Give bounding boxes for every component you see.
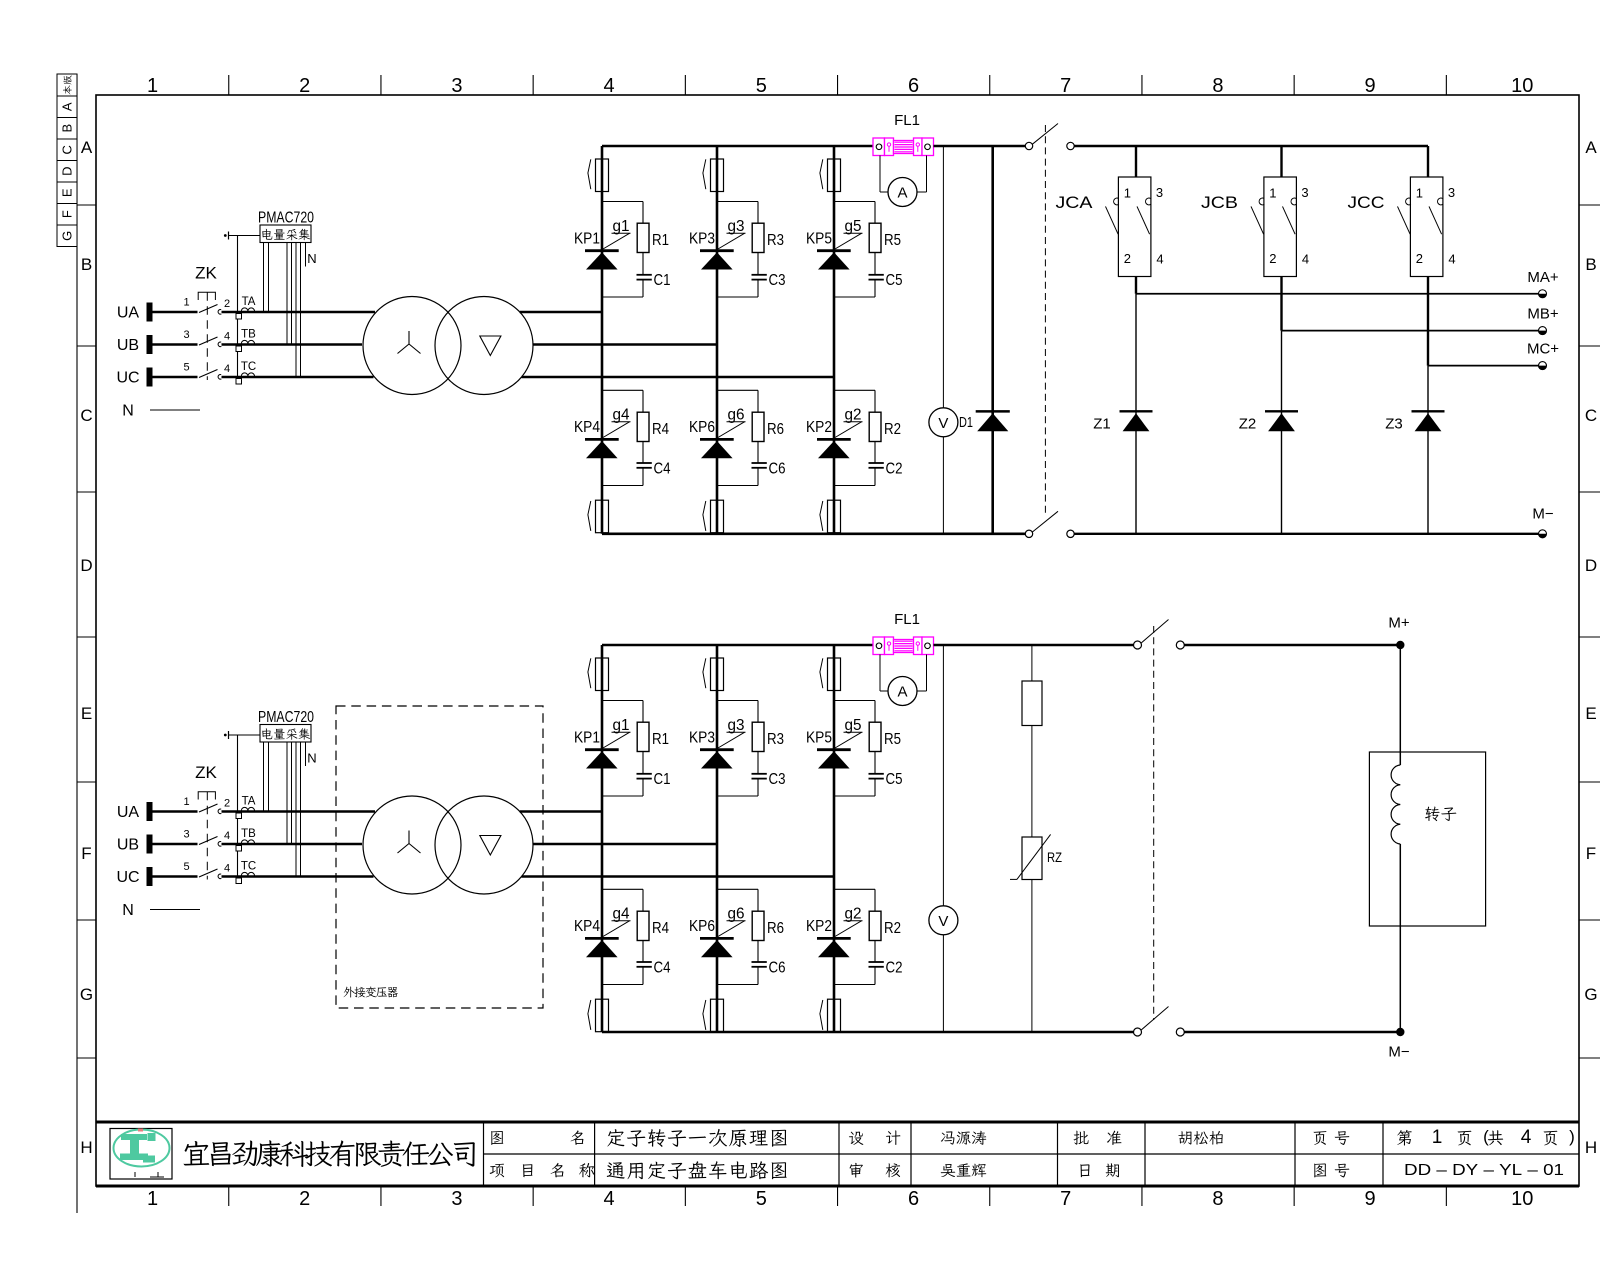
bridge top bus stator bbox=[602, 145, 873, 148]
svg-text:C4: C4 bbox=[654, 960, 671, 977]
ZK contact blade phase UC rotor bbox=[199, 869, 218, 877]
svg-text:R6: R6 bbox=[767, 421, 784, 438]
svg-text:R3: R3 bbox=[767, 232, 784, 249]
svg-text:E: E bbox=[1585, 704, 1596, 723]
svg-text:1: 1 bbox=[1416, 186, 1423, 201]
svg-text:5: 5 bbox=[183, 362, 189, 374]
svg-text:g4: g4 bbox=[613, 906, 630, 923]
voltmeter V top circuit bbox=[929, 408, 958, 437]
designer name 冯源涛 bbox=[941, 1131, 955, 1144]
svg-text:5: 5 bbox=[756, 1188, 767, 1210]
svg-text:9: 9 bbox=[1365, 75, 1376, 97]
negative bus M- run bbox=[1074, 533, 1542, 535]
disconnect switch on M+ bus bbox=[1134, 641, 1142, 649]
logo base ticks bbox=[135, 1172, 164, 1177]
svg-text:M−: M− bbox=[1388, 1044, 1409, 1061]
fuse top leg1 rotor bbox=[588, 658, 591, 688]
svg-text:4: 4 bbox=[224, 363, 230, 375]
ZK linkage dashed line rotor bbox=[206, 792, 208, 880]
svg-text:4: 4 bbox=[1302, 252, 1309, 267]
left outer trim line bbox=[76, 74, 78, 1213]
fuse shunt FL1 body rotor bbox=[873, 637, 885, 655]
svg-text:1: 1 bbox=[1269, 186, 1276, 201]
svg-text:C: C bbox=[59, 145, 74, 154]
title block outline bbox=[96, 1121, 1579, 1124]
svg-text:N: N bbox=[307, 251, 316, 266]
bridge leg 1 stator bbox=[601, 146, 604, 534]
wire UB to switch ZK stator bbox=[153, 343, 198, 346]
fuse bottom leg1 stator bbox=[588, 501, 591, 531]
svg-text:C4: C4 bbox=[654, 461, 671, 478]
ZK linkage dashed line stator bbox=[206, 292, 208, 380]
svg-text:UA: UA bbox=[117, 305, 140, 322]
svg-text:RZ: RZ bbox=[1047, 849, 1062, 865]
checker name 吴重辉 bbox=[941, 1164, 956, 1177]
svg-text:DD – DY – YL – 01: DD – DY – YL – 01 bbox=[1404, 1162, 1564, 1179]
svg-text:A: A bbox=[59, 102, 74, 111]
svg-text:KP1: KP1 bbox=[574, 231, 600, 248]
svg-text:F: F bbox=[1586, 844, 1596, 863]
thyristor KP4 with snubber R4,C4 stator bbox=[602, 389, 643, 391]
bridge bottom bus stator bbox=[602, 532, 1025, 535]
rotor feed wire bbox=[1399, 645, 1401, 765]
svg-text:g6: g6 bbox=[728, 906, 745, 923]
svg-text:PMAC720: PMAC720 bbox=[258, 210, 314, 227]
fuse top leg3 rotor bbox=[820, 658, 823, 688]
svg-text:KP3: KP3 bbox=[689, 730, 715, 747]
svg-text:C3: C3 bbox=[769, 771, 786, 788]
bridge bottom bus rotor bbox=[602, 1031, 1134, 1034]
fuse bottom leg1 rotor bbox=[588, 1000, 591, 1030]
svg-text:UC: UC bbox=[116, 869, 139, 886]
svg-text:B: B bbox=[81, 255, 92, 274]
svg-text:KP2: KP2 bbox=[806, 419, 832, 436]
svg-text:V: V bbox=[938, 913, 948, 930]
wire UB to switch ZK rotor bbox=[153, 843, 198, 846]
transformer output wires rotor bbox=[520, 810, 602, 813]
svg-text:3: 3 bbox=[451, 1188, 462, 1210]
svg-text:A: A bbox=[897, 185, 907, 202]
thyristor KP2 with snubber R2,C2 rotor bbox=[834, 888, 875, 890]
svg-text:KP3: KP3 bbox=[689, 231, 715, 248]
logo green JK monogram bbox=[120, 1133, 156, 1163]
voltmeter branch wire top circuit bbox=[942, 146, 944, 534]
M- terminal bottom bbox=[1396, 1028, 1404, 1036]
svg-text:g4: g4 bbox=[613, 407, 630, 424]
ZK contact blade phase UB stator bbox=[199, 337, 218, 345]
svg-text:3: 3 bbox=[451, 75, 462, 97]
svg-text:C2: C2 bbox=[886, 461, 903, 478]
svg-text:M+: M+ bbox=[1388, 615, 1409, 632]
CT ground symbol rotor bbox=[224, 734, 227, 737]
svg-text:10: 10 bbox=[1511, 75, 1533, 97]
svg-text:2: 2 bbox=[1269, 251, 1276, 266]
svg-text:2: 2 bbox=[224, 798, 230, 810]
svg-text:4: 4 bbox=[1156, 252, 1163, 267]
svg-text:R4: R4 bbox=[652, 421, 669, 438]
thyristor KP1 with snubber R1,C1 stator bbox=[602, 201, 643, 203]
svg-text:3: 3 bbox=[183, 829, 189, 841]
bridge leg 3 stator bbox=[833, 146, 836, 534]
svg-text:C6: C6 bbox=[769, 960, 786, 977]
positive bus after FL1 rotor bbox=[934, 644, 1134, 647]
svg-text:KP5: KP5 bbox=[806, 730, 832, 747]
discharge resistor bbox=[1022, 681, 1042, 726]
svg-text:JCA: JCA bbox=[1056, 193, 1094, 212]
revision strip header 版本 bbox=[63, 75, 71, 84]
svg-text:4: 4 bbox=[224, 331, 230, 343]
svg-text:C3: C3 bbox=[769, 272, 786, 289]
bridge top bus rotor bbox=[602, 644, 873, 647]
svg-text:G: G bbox=[59, 231, 74, 241]
svg-text:1: 1 bbox=[1124, 186, 1131, 201]
wire UA to switch ZK rotor bbox=[153, 810, 198, 813]
disconnect switch on negative bus top bbox=[1025, 530, 1032, 537]
svg-text:A: A bbox=[1585, 138, 1597, 157]
svg-text:H: H bbox=[1585, 1138, 1597, 1157]
page number 第 1 页(共 4 页) bbox=[1397, 1130, 1412, 1146]
svg-text:A: A bbox=[897, 684, 907, 701]
页 号 labels bbox=[1314, 1131, 1327, 1145]
diode Z3 branch bbox=[1427, 366, 1429, 534]
svg-text:KP5: KP5 bbox=[806, 231, 832, 248]
ZK contact blade phase UC stator bbox=[199, 370, 218, 378]
output line MB+ bbox=[1282, 330, 1543, 332]
voltmeter V bottom circuit bbox=[929, 906, 958, 935]
svg-text:TB: TB bbox=[241, 329, 256, 341]
svg-text:PMAC720: PMAC720 bbox=[258, 709, 314, 726]
svg-text:3: 3 bbox=[1301, 185, 1308, 200]
svg-text:ZK: ZK bbox=[195, 264, 217, 283]
svg-text:G: G bbox=[80, 985, 93, 1004]
output line MC+ bbox=[1428, 365, 1543, 367]
svg-text:TA: TA bbox=[242, 796, 256, 808]
project name 通用定子盘车电路图 bbox=[607, 1162, 625, 1178]
thyristor KP2 with snubber R2,C2 stator bbox=[834, 389, 875, 391]
svg-text:g5: g5 bbox=[845, 717, 862, 734]
svg-text:g3: g3 bbox=[728, 717, 745, 734]
svg-text:9: 9 bbox=[1365, 1188, 1376, 1210]
svg-text:TA: TA bbox=[242, 296, 256, 308]
svg-text:G: G bbox=[1584, 985, 1597, 1004]
svg-text:4: 4 bbox=[604, 75, 615, 97]
svg-text:5: 5 bbox=[183, 861, 189, 873]
varistor RZ bbox=[1022, 837, 1042, 880]
PMAC sense wires rotor bbox=[263, 742, 265, 812]
fuse top leg3 stator bbox=[820, 159, 823, 189]
svg-text:g6: g6 bbox=[728, 407, 745, 424]
svg-text:): ) bbox=[1569, 1127, 1575, 1146]
thyristor KP3 with snubber R3,C3 stator bbox=[717, 201, 758, 203]
PMAC neutral stub N rotor bbox=[305, 742, 307, 766]
transformer delta symbol rotor bbox=[480, 836, 501, 856]
svg-text:R5: R5 bbox=[884, 232, 901, 249]
rotor inductor coil bbox=[1391, 765, 1400, 844]
logo green ellipse bbox=[114, 1130, 170, 1167]
M+ bus to rotor bbox=[1184, 644, 1400, 646]
svg-text:KP4: KP4 bbox=[574, 419, 600, 436]
cabinet boundary dashed line top circuit bbox=[1044, 125, 1046, 516]
bridge leg 1 rotor bbox=[601, 645, 604, 1032]
svg-text:R5: R5 bbox=[884, 731, 901, 748]
svg-text:R3: R3 bbox=[767, 731, 784, 748]
CT ground symbol stator bbox=[224, 234, 227, 237]
svg-text:KP1: KP1 bbox=[574, 730, 600, 747]
svg-text:g3: g3 bbox=[728, 218, 745, 235]
company logo box bbox=[110, 1129, 172, 1180]
transformer primary circle stator bbox=[363, 297, 461, 395]
svg-text:D1: D1 bbox=[959, 414, 973, 431]
svg-text:4: 4 bbox=[1448, 252, 1455, 267]
svg-text:MC+: MC+ bbox=[1527, 341, 1559, 358]
transformer delta symbol stator bbox=[480, 336, 501, 356]
title 项目名称 row bbox=[490, 1164, 505, 1178]
审 核 labels bbox=[850, 1163, 863, 1178]
thyristor KP6 with snubber R6,C6 rotor bbox=[717, 888, 758, 890]
svg-text:UB: UB bbox=[117, 337, 139, 354]
positive bus to contactors bbox=[1074, 145, 1428, 147]
fuse top leg1 stator bbox=[588, 159, 591, 189]
图 号 labels bbox=[1314, 1164, 1326, 1178]
CT common wire rotor bbox=[237, 735, 239, 877]
transformer secondary circle rotor bbox=[435, 796, 533, 894]
svg-text:R6: R6 bbox=[767, 920, 784, 937]
svg-text:MA+: MA+ bbox=[1527, 269, 1559, 286]
svg-text:2: 2 bbox=[299, 75, 310, 97]
svg-text:TC: TC bbox=[241, 861, 256, 873]
svg-text:D: D bbox=[1585, 556, 1597, 575]
svg-text:8: 8 bbox=[1212, 1188, 1223, 1210]
fuse bottom leg2 rotor bbox=[703, 1000, 706, 1030]
positive bus after FL1 stator bbox=[934, 145, 1026, 148]
svg-text:1: 1 bbox=[147, 1188, 158, 1210]
thyristor KP5 with snubber R5,C5 stator bbox=[834, 201, 875, 203]
svg-text:Z3: Z3 bbox=[1385, 415, 1403, 432]
CT common wire stator bbox=[237, 236, 239, 378]
bridge leg 2 stator bbox=[716, 146, 719, 534]
svg-text:UA: UA bbox=[117, 804, 140, 821]
svg-text:UC: UC bbox=[116, 370, 139, 387]
svg-text:R2: R2 bbox=[884, 421, 901, 438]
diode Z2 branch bbox=[1281, 331, 1283, 534]
wire UA to switch ZK stator bbox=[153, 311, 198, 314]
disconnect switch on M- bus bottom bbox=[1134, 1028, 1142, 1036]
svg-text:2: 2 bbox=[1416, 251, 1423, 266]
title block vertical dividers bbox=[483, 1122, 485, 1186]
thyristor KP3 with snubber R3,C3 rotor bbox=[717, 700, 758, 702]
fuse bottom leg2 stator bbox=[703, 501, 706, 531]
svg-text:Z1: Z1 bbox=[1093, 415, 1111, 432]
cabinet boundary dashed line bottom circuit bbox=[1153, 626, 1155, 1020]
thyristor KP4 with snubber R4,C4 rotor bbox=[602, 888, 643, 890]
fuse top leg2 stator bbox=[703, 159, 706, 189]
svg-text:Z2: Z2 bbox=[1239, 415, 1257, 432]
freewheel diode D1 branch bbox=[991, 146, 994, 534]
svg-text:N: N bbox=[122, 902, 134, 919]
svg-text:2: 2 bbox=[224, 298, 230, 310]
transformer Y winding symbol rotor bbox=[398, 831, 421, 854]
svg-text:R4: R4 bbox=[652, 920, 669, 937]
row letters and dividers bbox=[77, 204, 96, 206]
svg-text:1: 1 bbox=[147, 75, 158, 97]
bridge leg 2 rotor bbox=[716, 645, 719, 1032]
svg-text:M−: M− bbox=[1532, 505, 1553, 522]
wire UB to transformer rotor bbox=[222, 843, 363, 846]
PMAC720 acquisition box 电量采集 rotor bbox=[260, 725, 311, 743]
diode Z1 branch bbox=[1135, 294, 1137, 534]
approver name 胡松柏 bbox=[1178, 1131, 1191, 1144]
wire UC to transformer rotor bbox=[222, 875, 374, 878]
svg-text:KP6: KP6 bbox=[689, 419, 715, 436]
rotor winding box 转子 bbox=[1369, 752, 1485, 926]
svg-text:TC: TC bbox=[241, 361, 256, 373]
M- bus to rotor bbox=[1184, 1031, 1400, 1033]
title 图 名 row bbox=[491, 1131, 503, 1145]
svg-text:R2: R2 bbox=[884, 920, 901, 937]
svg-text:D: D bbox=[80, 556, 92, 575]
svg-text:A: A bbox=[81, 138, 93, 157]
svg-text:F: F bbox=[60, 210, 75, 218]
svg-text:F: F bbox=[81, 844, 91, 863]
svg-text:E: E bbox=[81, 704, 92, 723]
drawing frame border bbox=[96, 95, 1579, 1186]
svg-text:7: 7 bbox=[1060, 75, 1071, 97]
svg-text:2: 2 bbox=[299, 1188, 310, 1210]
external transformer dashed box 外接变压器 bbox=[336, 706, 543, 1008]
svg-text:2: 2 bbox=[1124, 251, 1131, 266]
svg-text:KP2: KP2 bbox=[806, 918, 832, 935]
PMAC sense wires stator bbox=[263, 243, 265, 313]
svg-text:1: 1 bbox=[183, 297, 189, 309]
svg-text:g2: g2 bbox=[845, 407, 862, 424]
output line MA+ bbox=[1136, 293, 1543, 295]
svg-text:7: 7 bbox=[1060, 1188, 1071, 1210]
svg-text:6: 6 bbox=[908, 75, 919, 97]
日 期 labels bbox=[1080, 1164, 1089, 1177]
svg-text:3: 3 bbox=[183, 329, 189, 341]
ZK contact blade phase UA stator bbox=[199, 305, 218, 313]
svg-text:N: N bbox=[307, 751, 316, 766]
svg-text:UB: UB bbox=[117, 837, 139, 854]
svg-text:C1: C1 bbox=[654, 272, 671, 289]
svg-text:C: C bbox=[1585, 406, 1597, 425]
ammeter A rotor bbox=[879, 655, 881, 692]
wire UC to switch ZK rotor bbox=[153, 875, 198, 878]
svg-text:ZK: ZK bbox=[195, 763, 217, 782]
svg-text:4: 4 bbox=[1521, 1127, 1532, 1148]
svg-text:4: 4 bbox=[224, 830, 230, 842]
svg-text:R1: R1 bbox=[652, 731, 669, 748]
bridge leg 3 rotor bbox=[833, 645, 836, 1032]
设 计 labels bbox=[849, 1132, 863, 1145]
revision strip bbox=[57, 74, 77, 96]
fuse bottom leg3 stator bbox=[820, 501, 823, 531]
svg-text:g1: g1 bbox=[613, 717, 630, 734]
fuse bottom leg3 rotor bbox=[820, 1000, 823, 1030]
svg-text:C6: C6 bbox=[769, 461, 786, 478]
thyristor KP1 with snubber R1,C1 rotor bbox=[602, 700, 643, 702]
ZK bracket stator bbox=[198, 292, 215, 300]
svg-text:B: B bbox=[1585, 255, 1596, 274]
wire UC to switch ZK stator bbox=[153, 376, 198, 379]
title block mid horizontal divider bbox=[484, 1153, 1580, 1155]
disconnect switch on positive bus top bbox=[1025, 142, 1032, 149]
company name 宜昌劲康科技有限责任公司 bbox=[184, 1141, 210, 1165]
svg-text:C1: C1 bbox=[654, 771, 671, 788]
drawing name 定子转子一次原理图 bbox=[607, 1129, 624, 1146]
svg-text:10: 10 bbox=[1511, 1188, 1533, 1210]
voltmeter branch wire bottom circuit bbox=[942, 645, 944, 1032]
svg-text:N: N bbox=[122, 403, 134, 420]
discharge resistor branch bbox=[1031, 645, 1033, 1032]
svg-text:C5: C5 bbox=[886, 771, 903, 788]
svg-text:MB+: MB+ bbox=[1527, 306, 1559, 323]
PMAC720 acquisition box 电量采集 stator bbox=[260, 225, 311, 243]
wire UC to transformer stator bbox=[222, 376, 374, 379]
wire UB to transformer stator bbox=[222, 343, 363, 346]
svg-text:E: E bbox=[59, 188, 74, 197]
transformer primary circle rotor bbox=[363, 796, 461, 894]
thyristor KP5 with snubber R5,C5 rotor bbox=[834, 700, 875, 702]
column ruler ticks and numbers bbox=[228, 75, 230, 95]
svg-text:g5: g5 bbox=[845, 218, 862, 235]
svg-text:FL1: FL1 bbox=[894, 112, 920, 129]
svg-text:JCC: JCC bbox=[1348, 193, 1385, 212]
svg-text:g2: g2 bbox=[845, 906, 862, 923]
svg-text:V: V bbox=[938, 415, 948, 432]
svg-text:TB: TB bbox=[241, 828, 256, 840]
svg-text:KP4: KP4 bbox=[574, 918, 600, 935]
transformer Y winding symbol stator bbox=[398, 331, 421, 354]
transformer output wires stator bbox=[520, 311, 602, 314]
svg-text:B: B bbox=[60, 124, 75, 133]
svg-text:5: 5 bbox=[756, 75, 767, 97]
wire UA to transformer stator bbox=[222, 311, 376, 314]
批 准 labels bbox=[1073, 1131, 1088, 1145]
svg-text:KP6: KP6 bbox=[689, 918, 715, 935]
svg-text:1: 1 bbox=[1432, 1127, 1443, 1148]
svg-text:C5: C5 bbox=[886, 272, 903, 289]
svg-text:4: 4 bbox=[224, 863, 230, 875]
svg-text:3: 3 bbox=[1448, 185, 1455, 200]
svg-text:C: C bbox=[80, 406, 92, 425]
svg-text:8: 8 bbox=[1212, 75, 1223, 97]
svg-text:D: D bbox=[60, 167, 75, 176]
svg-text:4: 4 bbox=[604, 1188, 615, 1210]
svg-text:g1: g1 bbox=[613, 218, 630, 235]
svg-text:3: 3 bbox=[1156, 185, 1163, 200]
wire UA to transformer rotor bbox=[222, 810, 376, 813]
thyristor KP6 with snubber R6,C6 stator bbox=[717, 389, 758, 391]
transformer secondary circle stator bbox=[435, 297, 533, 395]
ZK contact blade phase UB rotor bbox=[199, 837, 218, 845]
svg-text:R1: R1 bbox=[652, 232, 669, 249]
ammeter A stator bbox=[879, 156, 881, 193]
svg-text:H: H bbox=[80, 1138, 92, 1157]
svg-text:1: 1 bbox=[183, 796, 189, 808]
svg-text:(: ( bbox=[1483, 1127, 1489, 1146]
svg-text:JCB: JCB bbox=[1201, 193, 1238, 212]
ZK bracket rotor bbox=[198, 792, 215, 800]
fuse top leg2 rotor bbox=[703, 658, 706, 688]
ZK contact blade phase UA rotor bbox=[199, 804, 218, 812]
svg-text:C2: C2 bbox=[886, 960, 903, 977]
PMAC neutral stub N stator bbox=[305, 243, 307, 267]
svg-text:6: 6 bbox=[908, 1188, 919, 1210]
fuse shunt FL1 body stator bbox=[873, 138, 885, 156]
svg-text:FL1: FL1 bbox=[894, 611, 920, 628]
